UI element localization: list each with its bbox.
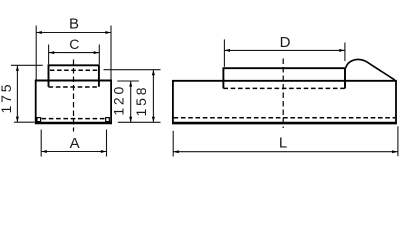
body outline right view	[172, 81, 397, 123]
hidden collar bottom line right view (dashed)	[223, 87, 345, 89]
gooseneck hood curve	[346, 59, 395, 80]
collar side view	[223, 68, 345, 88]
body bottom base edge (thick) right view	[172, 122, 397, 125]
hidden bottom opening line right view (dashed)	[174, 117, 396, 119]
svg-text:175: 175	[0, 82, 14, 114]
dimension C	[49, 45, 100, 65]
svg-text:L: L	[279, 135, 287, 152]
svg-text:A: A	[70, 135, 80, 152]
centerline left view (vertical dashed)	[73, 60, 75, 132]
collar (top duct stub) left view	[49, 65, 99, 87]
dimension D	[224, 39, 345, 66]
svg-text:D: D	[280, 34, 291, 51]
dimension 175	[11, 65, 43, 122]
hidden inner top line of collar (dashed)	[50, 69, 98, 71]
dimension A	[41, 130, 106, 157]
dimension 120	[117, 81, 139, 122]
dimension B	[36, 26, 111, 81]
corner angle block right	[106, 118, 110, 122]
body outline left view	[35, 81, 112, 123]
corner angle block left	[37, 118, 41, 122]
svg-text:B: B	[69, 16, 79, 33]
svg-text:C: C	[69, 36, 79, 52]
centerline right view (vertical dashed)	[282, 59, 284, 129]
hidden collar bottom line (dashed)	[49, 86, 99, 88]
dimension L	[173, 126, 398, 156]
svg-text:158: 158	[133, 85, 149, 117]
svg-text:120: 120	[110, 84, 126, 116]
dimension 158	[104, 70, 161, 123]
body bottom base edge (thick) left view	[35, 122, 112, 125]
hidden bottom opening line (dashed)	[42, 118, 105, 120]
